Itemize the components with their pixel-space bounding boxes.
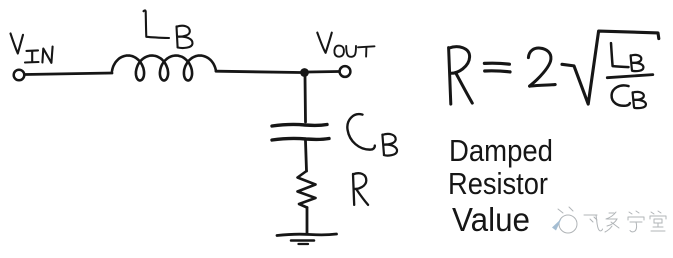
svg-text:Resistor: Resistor — [448, 166, 548, 201]
svg-text:Value: Value — [452, 201, 530, 238]
svg-text:Damped: Damped — [449, 133, 553, 168]
